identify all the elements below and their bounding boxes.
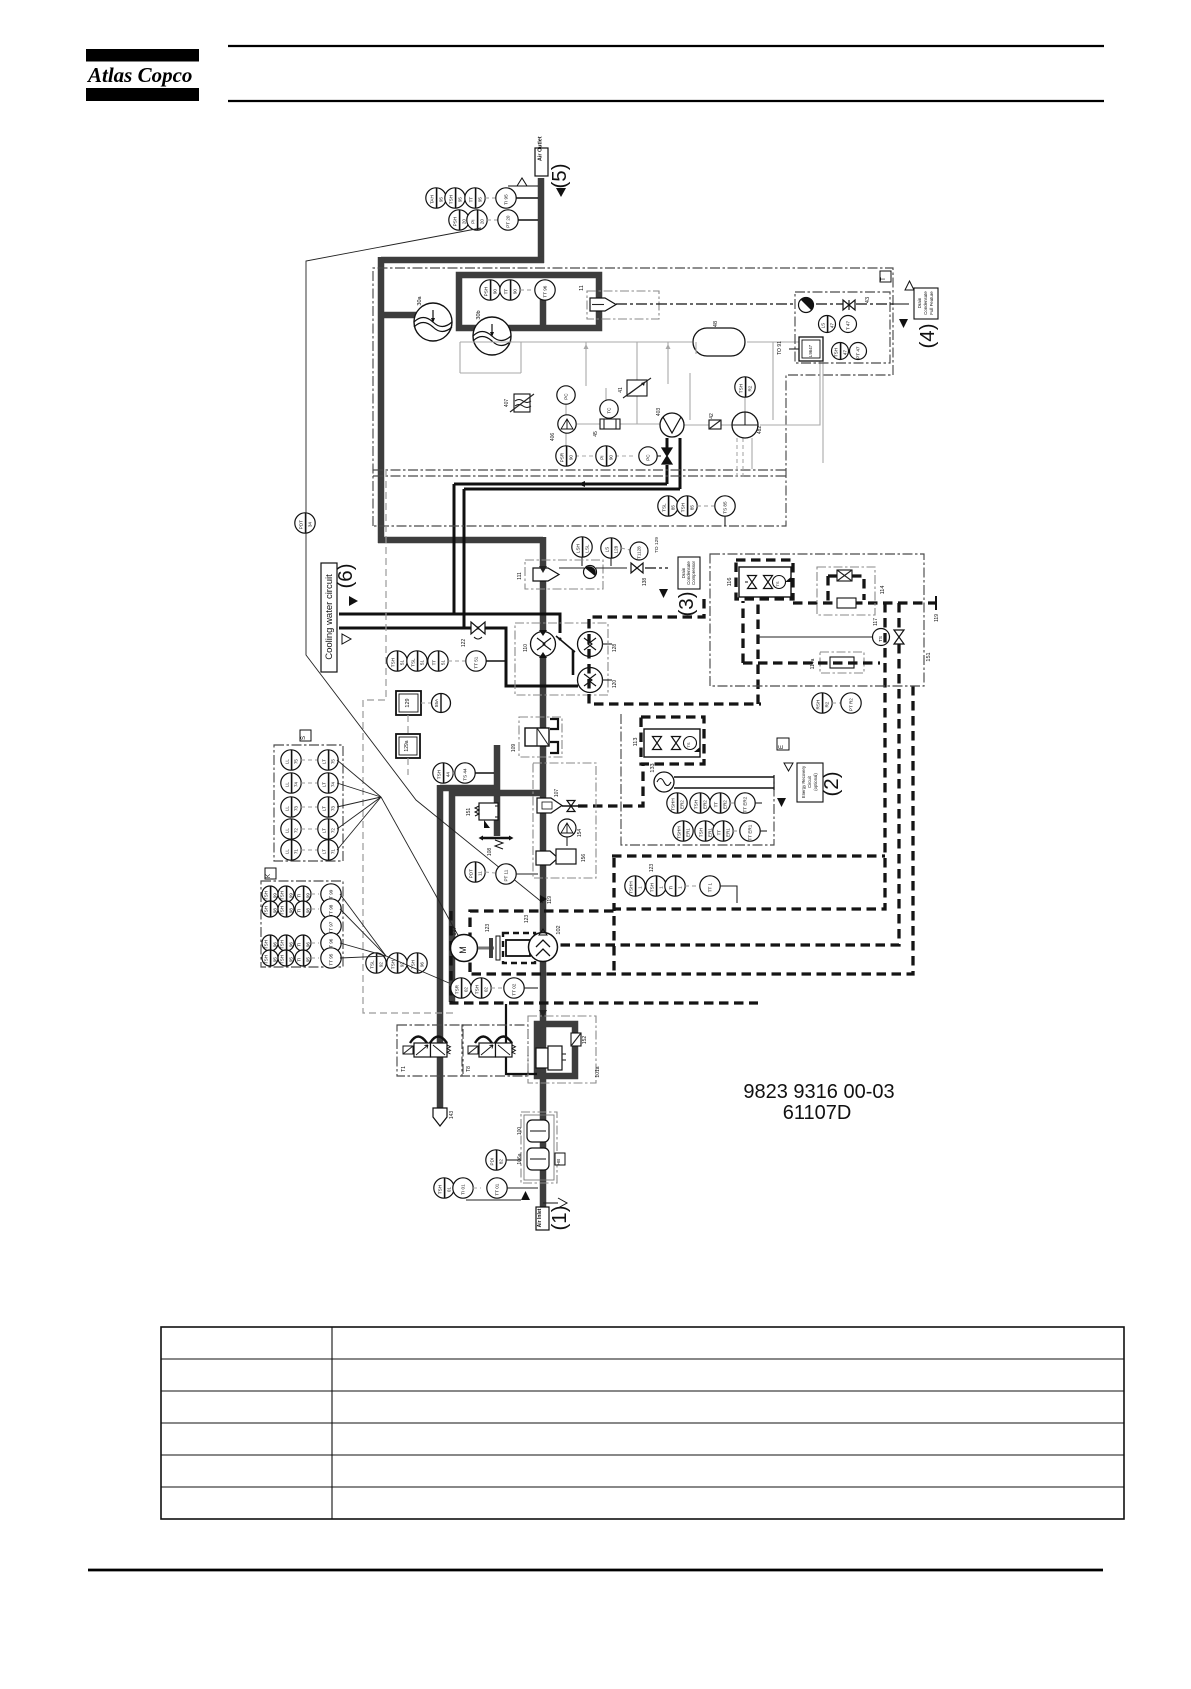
nozzle 156 <box>536 849 587 865</box>
svg-text:(6): (6) <box>334 563 357 588</box>
svg-text:51: 51 <box>440 660 445 666</box>
svg-text:ER2: ER2 <box>679 800 684 809</box>
svg-text:11: 11 <box>579 285 585 291</box>
svg-text:Drain: Drain <box>917 297 922 308</box>
svg-text:T: T <box>881 277 887 281</box>
svg-text:107: 107 <box>554 789 560 798</box>
bubble PDI 82 <box>486 1150 521 1170</box>
svg-text:123: 123 <box>649 864 655 873</box>
svg-text:TSHH: TSHH <box>676 826 681 839</box>
drain full feature filled triangle <box>899 319 908 328</box>
svg-text:51: 51 <box>419 660 424 666</box>
restrictor 407 <box>504 394 534 412</box>
svg-text:LL: LL <box>284 849 289 855</box>
blowoff silencer 143 <box>433 1108 455 1126</box>
svg-text:122: 122 <box>461 639 467 648</box>
pipe top elbow to left <box>381 257 544 264</box>
E label box <box>777 738 789 750</box>
svg-text:TT 95: TT 95 <box>329 953 334 965</box>
svg-text:LSH: LSH <box>575 544 580 553</box>
svg-text:30b: 30b <box>476 310 482 319</box>
bubble PT 47 <box>850 343 867 360</box>
svg-text:85: 85 <box>670 505 675 511</box>
pilot valve T8 <box>462 1025 528 1076</box>
instrument row intercooler <box>480 280 555 300</box>
svg-text:TSH: TSH <box>436 770 441 779</box>
heat exchanger enclosure <box>515 623 608 695</box>
valve block 116 <box>727 567 791 597</box>
pipe from solenoid 107 down <box>494 745 501 836</box>
svg-text:HB: HB <box>556 1159 561 1165</box>
svg-text:TT 51: TT 51 <box>474 656 479 668</box>
double dash-dot boundary upper <box>373 469 786 471</box>
level bubbles L75 <box>281 750 338 770</box>
svg-text:ER1: ER1 <box>725 828 730 837</box>
level bubbles L71 <box>281 840 338 860</box>
temperature bubbles row 95 <box>262 948 341 968</box>
orifice enclosure 107 <box>533 763 596 878</box>
svg-text:75: 75 <box>330 759 335 765</box>
water separator 111 nozzle <box>533 568 559 581</box>
svg-text:128: 128 <box>613 545 618 553</box>
silencer 11 enclosure <box>579 285 659 319</box>
svg-text:TI: TI <box>668 886 673 890</box>
cooling water header y484 <box>454 483 667 486</box>
svg-text:TT 1: TT 1 <box>708 882 713 892</box>
drain dash-dot through pump <box>816 303 909 305</box>
arrow 119 on pipe <box>540 895 547 903</box>
svg-text:85: 85 <box>689 505 694 511</box>
svg-text:51: 51 <box>399 660 404 666</box>
svg-text:99: 99 <box>305 893 310 899</box>
leader fan temperature bank <box>340 894 449 983</box>
svg-text:99: 99 <box>288 893 293 899</box>
svg-text:TSH: TSH <box>263 906 268 915</box>
svg-text:98: 98 <box>288 908 293 914</box>
svg-text:71: 71 <box>330 849 335 855</box>
svg-text:TSH: TSH <box>390 960 395 969</box>
cooling water circuit label <box>321 563 337 672</box>
bubbles PDT PT 11 <box>465 862 538 884</box>
svg-text:(3): (3) <box>675 591 698 616</box>
solenoid block 109 <box>525 719 558 753</box>
svg-text:90: 90 <box>512 289 517 295</box>
svg-text:T 47: T 47 <box>846 321 851 331</box>
temperature bank enclosure K <box>261 868 343 967</box>
valve block 116 dashed outline <box>736 560 793 599</box>
heavy dashed compressor outer box <box>451 911 758 1003</box>
cooling water header y489 <box>464 488 680 491</box>
section 3 arrow and label <box>659 557 700 598</box>
svg-text:406: 406 <box>550 433 556 442</box>
svg-text:92: 92 <box>378 962 383 968</box>
svg-text:108: 108 <box>487 848 493 857</box>
air filter 106a <box>517 1148 549 1170</box>
heat exchanger 133 <box>650 763 774 792</box>
svg-text:47: 47 <box>842 350 847 356</box>
pipe elbow left at y788 <box>440 785 497 792</box>
svg-text:128: 128 <box>612 644 618 653</box>
svg-text:Full Feature: Full Feature <box>929 291 934 315</box>
svg-text:TSH: TSH <box>437 1185 442 1194</box>
svg-text:129a: 129a <box>404 740 410 751</box>
main enclosure dash-dot boundary <box>373 268 893 526</box>
svg-text:1: 1 <box>637 886 642 889</box>
bubble TS 117 and valve <box>758 618 904 646</box>
svg-text:403: 403 <box>656 408 662 417</box>
svg-text:LT: LT <box>321 828 326 833</box>
instrument row oil pressure <box>556 446 661 466</box>
bubble TSH 47 <box>832 343 849 360</box>
svg-text:TI: TI <box>296 894 301 898</box>
svg-text:TSR: TSR <box>454 984 459 994</box>
svg-text:TSH: TSH <box>698 828 703 837</box>
svg-text:TT: TT <box>431 660 436 666</box>
bubbles PT R2 <box>812 693 861 713</box>
svg-text:TT: TT <box>468 197 473 203</box>
leader fan level bank <box>337 760 459 937</box>
svg-text:TSH: TSH <box>649 883 654 892</box>
check valve 43 <box>843 300 855 310</box>
svg-text:LL: LL <box>284 782 289 788</box>
svg-text:1: 1 <box>658 886 663 889</box>
cooling water valve drop <box>667 438 680 489</box>
svg-text:129: 129 <box>405 698 411 707</box>
svg-text:PSR: PSR <box>559 452 564 462</box>
air inlet open arrow <box>543 1198 567 1208</box>
svg-text:PDT: PDT <box>468 869 473 878</box>
svg-text:M: M <box>458 946 468 954</box>
svg-text:TT 98: TT 98 <box>329 904 334 916</box>
section 2 triangles and label <box>777 763 823 807</box>
svg-text:LL: LL <box>284 828 289 834</box>
svg-text:101a: 101a <box>595 1066 601 1077</box>
svg-text:95: 95 <box>438 197 443 203</box>
expansion module 114 <box>817 567 886 615</box>
svg-text:TT ER1: TT ER1 <box>748 824 753 840</box>
screw compressor 102 <box>529 896 563 962</box>
svg-text:02: 02 <box>483 987 488 993</box>
controller TC <box>600 400 618 418</box>
svg-text:TS: TS <box>775 581 780 586</box>
pipe central vertical main <box>540 537 547 1207</box>
svg-text:96: 96 <box>305 942 310 948</box>
drain pump enclosure 43 <box>795 292 890 363</box>
nozzle 107 <box>537 789 584 813</box>
switch link <box>556 636 575 652</box>
compressor element 30a <box>414 295 452 341</box>
pipe air outlet vertical <box>538 178 545 263</box>
heavy dashed vertical x913 <box>470 686 913 974</box>
gray dashed boundary mid-left <box>363 470 457 1013</box>
heavy dashed line through 114a <box>743 601 880 663</box>
svg-text:LT: LT <box>321 759 326 764</box>
cooling water open triangle <box>342 634 351 644</box>
bubbles compressor outlet 02 <box>451 978 538 998</box>
svg-text:LT: LT <box>321 782 326 787</box>
leader line from outlet instruments <box>306 228 543 903</box>
filter module 114a <box>810 652 864 673</box>
compressor element 30b <box>473 310 511 355</box>
svg-text:TT 97: TT 97 <box>329 921 334 933</box>
bubble LS 47 <box>819 316 836 333</box>
svg-text:45: 45 <box>593 431 599 437</box>
svg-text:34: 34 <box>307 522 312 528</box>
valve block 113 dashed outline <box>641 717 704 764</box>
svg-text:114: 114 <box>880 586 886 595</box>
svg-text:110: 110 <box>523 644 529 652</box>
svg-text:R2: R2 <box>824 701 829 707</box>
svg-text:TSH: TSH <box>263 891 268 900</box>
heavy dashed line y856 <box>612 854 885 857</box>
temperature bubbles row 97 <box>321 916 341 936</box>
svg-text:72: 72 <box>293 828 298 834</box>
pipe branch to compressor 30a <box>381 312 422 319</box>
pilot valve T1 <box>397 1025 463 1076</box>
svg-text:TSH: TSH <box>448 195 453 204</box>
svg-text:Air Outlet: Air Outlet <box>538 136 544 161</box>
svg-text:TO 91: TO 91 <box>777 341 783 355</box>
controller 129a <box>396 715 420 775</box>
air inlet filled triangle <box>466 1191 530 1200</box>
converter 154 <box>558 819 583 846</box>
double dash-dot boundary lower <box>373 475 786 477</box>
controller 129 <box>396 691 421 715</box>
svg-text:72: 72 <box>330 828 335 834</box>
svg-text:482: 482 <box>757 426 763 435</box>
svg-text:(1): (1) <box>548 1205 571 1230</box>
svg-text:TSH: TSH <box>390 658 395 667</box>
cooling water supply line <box>339 614 560 633</box>
revision table <box>161 1327 1124 1519</box>
pipe elbow to center <box>378 537 543 544</box>
arrow on pipe y1015 <box>539 1010 547 1017</box>
condenser 120b <box>578 668 619 693</box>
instrument row 128 <box>572 537 660 566</box>
bubbles 44 <box>433 763 494 783</box>
safety valve 108 <box>479 836 514 857</box>
bubble T 47 <box>840 316 857 333</box>
svg-text:116: 116 <box>727 578 733 587</box>
air filter 100 <box>517 1120 549 1142</box>
pipe left downcomer to blowoff <box>437 785 444 1108</box>
svg-text:Compressor: Compressor <box>691 561 696 585</box>
cooling water return line <box>339 628 578 686</box>
bubble 55A <box>421 694 451 713</box>
heavy dashed line 116 to 114 <box>793 596 940 622</box>
svg-text:TO 129: TO 129 <box>654 537 660 553</box>
svg-text:ER1: ER1 <box>685 828 690 837</box>
svg-text:156: 156 <box>581 854 587 863</box>
header rule bottom <box>228 100 1104 102</box>
silencer 11 nozzle <box>590 298 616 311</box>
instrument row ER2 <box>667 793 762 813</box>
pipe left vertical riser <box>378 257 385 543</box>
header rule top <box>228 45 1104 47</box>
cooling water riser 1 <box>453 484 456 614</box>
svg-text:TC: TC <box>607 407 612 414</box>
svg-text:TSH: TSH <box>474 985 479 994</box>
valve 122 <box>461 622 485 647</box>
condenser 120a <box>578 632 619 657</box>
control line tank to fan <box>690 357 823 469</box>
heavy dashed compressor inner box <box>470 858 614 972</box>
svg-text:LSL: LSL <box>584 544 589 553</box>
svg-text:ER1: ER1 <box>707 828 712 837</box>
svg-text:TSHH: TSHH <box>670 798 675 811</box>
svg-text:138: 138 <box>642 578 648 587</box>
level bubbles L72 <box>281 819 338 839</box>
refrigerant dashed box around condensers <box>589 599 761 704</box>
svg-text:LS: LS <box>820 323 825 329</box>
svg-text:TSH: TSH <box>263 955 268 964</box>
svg-text:TT: TT <box>713 802 718 808</box>
svg-text:98: 98 <box>305 908 310 914</box>
svg-text:151: 151 <box>926 652 932 661</box>
water separator 111 enclosure <box>517 560 603 589</box>
drain full feature open triangle <box>905 281 914 290</box>
bubble TSH R2 <box>735 377 755 397</box>
svg-text:PC: PC <box>646 454 651 461</box>
bubble PDT 34 <box>295 513 315 533</box>
cooling water filled triangle <box>349 596 358 606</box>
pipe intercooler loop <box>459 275 599 328</box>
svg-text:TT 01: TT 01 <box>495 1183 500 1195</box>
svg-text:95: 95 <box>305 957 310 963</box>
arrow on pipe y571 <box>539 566 547 573</box>
svg-text:TS 85: TS 85 <box>723 501 728 514</box>
svg-text:99: 99 <box>272 893 277 899</box>
svg-text:PSH: PSH <box>452 217 457 226</box>
svg-text:90: 90 <box>568 455 573 461</box>
svg-text:T8: T8 <box>466 1066 472 1072</box>
svg-text:LL: LL <box>284 806 289 812</box>
air filter enclosure 100 <box>521 1112 557 1183</box>
level bubbles L73 <box>281 797 338 817</box>
thermostatic valve on cooling drop <box>662 448 672 464</box>
bubbles 123 row <box>625 864 737 903</box>
svg-text:LT: LT <box>321 849 326 854</box>
controller L9647 <box>799 337 823 361</box>
svg-text:152: 152 <box>582 1036 588 1045</box>
svg-text:74: 74 <box>293 782 298 788</box>
Atlas Copco logo <box>86 49 199 101</box>
svg-text:TI: TI <box>296 958 301 962</box>
svg-text:TAH: TAH <box>429 195 434 204</box>
drain valve 111 <box>559 566 597 579</box>
svg-text:Condensate: Condensate <box>923 291 928 315</box>
svg-text:82: 82 <box>498 1159 503 1165</box>
svg-text:102: 102 <box>556 925 562 934</box>
svg-text:41: 41 <box>618 387 624 393</box>
svg-text:E: E <box>779 745 785 749</box>
pipe stub TT96 <box>540 295 547 325</box>
svg-text:TI 95: TI 95 <box>504 194 509 205</box>
svg-text:TT 02: TT 02 <box>512 983 517 995</box>
svg-text:96: 96 <box>288 942 293 948</box>
svg-text:47: 47 <box>829 323 834 329</box>
svg-text:151: 151 <box>466 808 472 817</box>
svg-text:48: 48 <box>713 321 719 327</box>
svg-text:ER2: ER2 <box>722 800 727 809</box>
unloader enclosure 101a <box>528 1016 601 1083</box>
svg-text:90: 90 <box>608 455 613 461</box>
HB box <box>555 1153 565 1165</box>
cooler 403 <box>656 408 684 437</box>
svg-text:PT 47: PT 47 <box>856 346 861 359</box>
instrument row air outlet 2 <box>449 210 538 230</box>
svg-text:TSH: TSH <box>279 891 284 900</box>
heavy dashed link 107 to 113 <box>578 764 643 806</box>
air outlet filled triangle <box>556 188 566 197</box>
svg-text:9823 9316 00-03: 9823 9316 00-03 <box>743 1081 894 1103</box>
svg-text:PI: PI <box>470 219 475 223</box>
svg-text:119: 119 <box>547 896 553 904</box>
svg-text:TS 44: TS 44 <box>463 768 468 781</box>
svg-text:TSH: TSH <box>738 384 743 393</box>
ER enclosure dash-dot <box>710 554 924 686</box>
svg-text:Circuit: Circuit <box>807 775 812 788</box>
svg-text:43: 43 <box>865 297 871 303</box>
svg-text:LS: LS <box>604 547 609 553</box>
svg-text:61107D: 61107D <box>783 1102 852 1124</box>
valve 138 <box>596 563 668 586</box>
pump 43 <box>799 297 814 312</box>
svg-text:PT 20: PT 20 <box>506 215 511 228</box>
svg-text:Air Inlet: Air Inlet <box>537 1208 543 1227</box>
svg-text:TSL: TSL <box>661 503 666 512</box>
control line network gray <box>460 342 820 480</box>
svg-text:TI: TI <box>296 909 301 913</box>
svg-text:75: 75 <box>293 759 298 765</box>
svg-text:20: 20 <box>479 219 484 225</box>
svg-text:TSH: TSH <box>279 955 284 964</box>
bubbles air inlet 01 <box>434 1178 538 1198</box>
instrument row air outlet 1 <box>426 188 538 208</box>
svg-text:117: 117 <box>873 618 879 626</box>
svg-text:109: 109 <box>511 744 517 753</box>
svg-text:TSH: TSH <box>279 940 284 949</box>
svg-text:L9647: L9647 <box>808 344 813 357</box>
svg-text:R2: R2 <box>747 385 752 391</box>
svg-text:TT 96: TT 96 <box>543 285 548 297</box>
unloader valve <box>536 1046 566 1070</box>
solenoid 152 <box>571 1033 588 1046</box>
svg-text:98: 98 <box>272 908 277 914</box>
svg-text:95: 95 <box>457 197 462 203</box>
instrument row ER1 <box>673 821 767 841</box>
svg-text:96: 96 <box>272 942 277 948</box>
vessel 48 <box>693 321 745 356</box>
coupling 123 <box>478 915 535 963</box>
svg-text:PDI: PDI <box>489 1158 494 1166</box>
svg-text:154: 154 <box>577 829 583 838</box>
svg-text:120: 120 <box>612 680 618 689</box>
svg-text:100: 100 <box>517 1127 523 1136</box>
svg-text:TI: TI <box>296 943 301 947</box>
svg-text:407: 407 <box>504 399 510 408</box>
svg-text:95: 95 <box>272 957 277 963</box>
svg-text:106a: 106a <box>517 1153 523 1164</box>
controller PC upper <box>557 386 575 404</box>
instrument row 92/96 <box>366 953 427 973</box>
instrument row TS85 <box>658 496 735 526</box>
solenoid block 109 enclosure <box>511 717 562 757</box>
svg-text:90: 90 <box>492 289 497 295</box>
svg-text:123: 123 <box>485 924 491 933</box>
svg-text:TSH: TSH <box>263 940 268 949</box>
level bubbles L74 <box>281 773 338 793</box>
